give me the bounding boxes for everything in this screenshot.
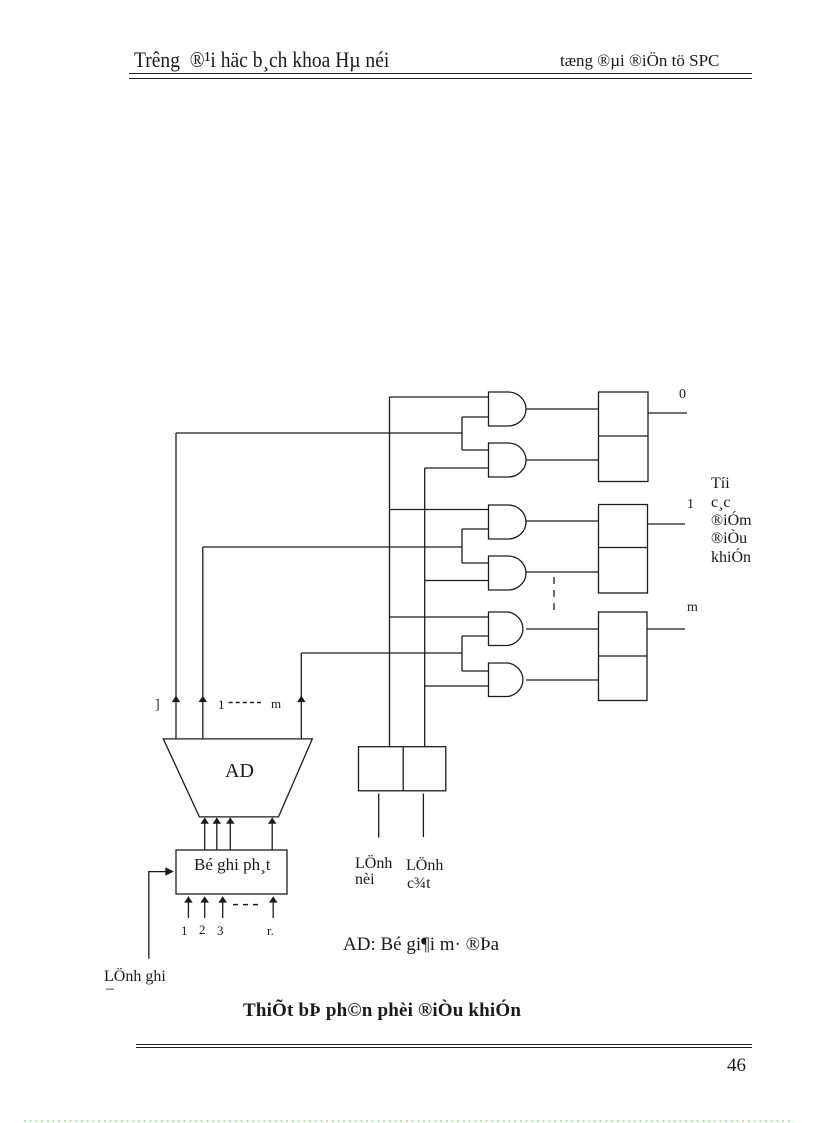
- wire: register input arrow line 3: [222, 901, 224, 918]
- wire: G3 top input from nèi bus: [390, 509, 489, 511]
- AND gate G2: [489, 443, 527, 477]
- header right text: [560, 51, 719, 71]
- svg-text:m: m: [687, 600, 698, 615]
- svg-text:LÖnh: LÖnh: [355, 854, 392, 872]
- page number: [727, 1055, 746, 1077]
- footer double rule: [136, 1044, 752, 1045]
- arrowhead: AD out 0: [172, 696, 181, 703]
- green dotted bottom line: [24, 1120, 794, 1122]
- svg-text:1: 1: [218, 697, 225, 712]
- svg-text:1: 1: [687, 497, 694, 512]
- arrowhead: LÖnh ghi into register: [165, 867, 174, 876]
- svg-text:m: m: [271, 696, 281, 711]
- wire: stub to G3 lower input: [462, 528, 489, 530]
- wire: G4 bottom input from c¾t bus: [425, 580, 489, 582]
- dashes: register input row: [233, 904, 259, 906]
- wire: AD output m horizontal run: [301, 652, 462, 654]
- flip-flop FFm box: [599, 612, 648, 701]
- wire: register input arrow line 2: [204, 901, 206, 918]
- wire: group3 branch vertical: [461, 636, 463, 671]
- AND gate G6: [489, 663, 523, 697]
- wire: output 0: [648, 412, 687, 414]
- wire: G2 output: [526, 459, 599, 461]
- wire: G6 output: [526, 679, 599, 681]
- wire: AD out 1 vertical: [202, 547, 204, 739]
- flip-flop FF0 box: [599, 392, 649, 482]
- wire: G1 output: [526, 408, 599, 410]
- wire: AD output 1 horizontal run: [203, 546, 462, 548]
- wire: LÖnh nèi vertical bus: [389, 397, 391, 747]
- wire: stub to G4 upper input: [462, 562, 489, 564]
- svg-text:2: 2: [199, 922, 206, 937]
- wire: register input arrow line r: [272, 901, 274, 918]
- flip-flop FF0 divider: [599, 435, 649, 437]
- wire: stub to G2 upper input: [462, 449, 489, 451]
- wire: LÖnh c¾t vertical bus: [424, 468, 426, 747]
- svg-text:LÖnh: LÖnh: [406, 856, 443, 874]
- wire: AD output 0 horizontal run: [176, 432, 462, 434]
- wire: G3 output: [526, 520, 599, 522]
- flip-flop FFm divider: [599, 655, 648, 657]
- arrowhead: reg-to-AD a: [200, 818, 209, 824]
- wire: AD out m vertical: [300, 653, 302, 739]
- svg-text:–: –: [105, 980, 115, 997]
- arrowhead: AD out 1: [199, 696, 208, 703]
- wire: AD out 0 vertical: [175, 433, 177, 739]
- svg-text:Bé ghi ph¸t: Bé ghi ph¸t: [194, 855, 271, 874]
- wire: LÖnh c¾t lead: [422, 794, 424, 838]
- wire: group2 branch vertical: [461, 529, 463, 563]
- dashes: trapezoid label row: [229, 702, 264, 704]
- header double rule: [129, 73, 752, 74]
- wire: stub to G6 upper input: [462, 670, 489, 672]
- arrowhead: reg-to-AD d: [268, 818, 277, 824]
- wire: LÖnh ghi L-wire: [149, 872, 166, 959]
- AND gate G3: [489, 505, 527, 539]
- wire: register to AD arrow line a: [204, 818, 206, 850]
- wire: group1 branch vertical: [461, 417, 463, 450]
- wire: G1 top input from nèi bus: [390, 396, 489, 398]
- svg-text:®iÒu: ®iÒu: [711, 528, 747, 547]
- wire: stub to G5 lower input: [462, 635, 489, 637]
- svg-text:1: 1: [181, 923, 188, 938]
- wire: G5 top input from nèi bus: [390, 616, 489, 618]
- wire: G5 output: [526, 628, 599, 630]
- svg-text:c¾t: c¾t: [407, 875, 431, 892]
- svg-text:0: 0: [679, 387, 686, 402]
- wire: register to AD arrow line c: [229, 818, 231, 850]
- svg-text:®iÓm: ®iÓm: [711, 510, 752, 529]
- arrowhead: reg input 2: [200, 896, 209, 902]
- svg-text:Tíi: Tíi: [711, 475, 730, 492]
- wire: LÖnh nèi lead: [378, 794, 380, 838]
- header left text: [134, 47, 389, 73]
- svg-text:khiÓn: khiÓn: [711, 547, 751, 566]
- wire: G2 bottom input from c¾t bus: [425, 467, 489, 469]
- dashed ellipsis between groups: [553, 577, 555, 616]
- arrowhead: reg input r: [269, 896, 278, 902]
- svg-text:AD: AD: [225, 760, 254, 782]
- wire: output m: [647, 628, 685, 630]
- wire: stub to G1 lower input: [462, 416, 489, 418]
- flip-flop FF1 box: [599, 505, 648, 594]
- AND gate G4: [489, 556, 527, 590]
- wire: G4 output: [526, 571, 599, 573]
- register Bé ghi ph¸t box: [176, 850, 287, 894]
- flip-flop FF1 divider: [599, 547, 648, 549]
- svg-text:r.: r.: [267, 923, 274, 938]
- command latch divider: [402, 747, 404, 791]
- svg-text:]: ]: [155, 698, 160, 713]
- arrowhead: AD out m: [297, 696, 306, 703]
- arrowhead: reg input 1: [184, 896, 193, 902]
- decoder AD trapezoid: [163, 739, 312, 817]
- wire: register input arrow line 1: [187, 901, 189, 918]
- AND gate G5: [489, 612, 523, 646]
- command latch box: [359, 747, 446, 791]
- wire: register to AD arrow line d: [271, 818, 273, 850]
- svg-text:nèi: nèi: [355, 871, 375, 888]
- svg-text:3: 3: [217, 923, 224, 938]
- AND gate G1: [489, 392, 527, 426]
- wire: output 1: [648, 523, 686, 525]
- arrowhead: reg-to-AD b: [213, 818, 222, 824]
- arrowhead: reg-to-AD c: [226, 818, 235, 824]
- svg-text:ThiÕt bÞ ph©n phèi ®iÒu khiÓn: ThiÕt bÞ ph©n phèi ®iÒu khiÓn: [243, 999, 521, 1021]
- wire: register to AD arrow line b: [216, 818, 218, 850]
- svg-text:AD: Bé gi¶i m· ®Þa: AD: Bé gi¶i m· ®Þa: [343, 934, 500, 955]
- svg-text:c¸c: c¸c: [711, 494, 731, 511]
- arrowhead: reg input 3: [218, 896, 227, 902]
- wire: G6 bottom input from c¾t bus: [425, 685, 489, 687]
